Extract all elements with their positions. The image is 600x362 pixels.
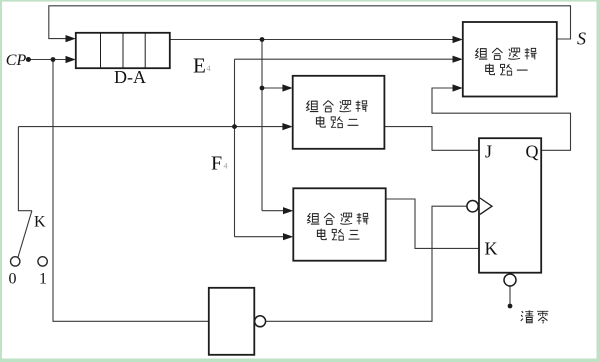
arrow into circuit-1 input 1: [453, 36, 463, 43]
svg-text:E: E: [193, 54, 206, 78]
svg-text:J: J: [485, 142, 492, 162]
NAND gate G1 output bubble: [255, 316, 266, 327]
register cell divider 2: [122, 33, 124, 68]
arrow into circuit-1 input 2: [453, 56, 463, 63]
arrow into circuit-1 input 3: [453, 84, 463, 91]
wire K-net vertical rail: [234, 59, 236, 237]
junction E4 to circuit-2: [260, 86, 265, 91]
label circuit-1 text line 2 电路一: [486, 64, 528, 75]
arrow into register CP input: [66, 56, 76, 63]
label circuit-2 text line 2 电路二: [316, 116, 358, 127]
wire switch lever: [18, 211, 32, 258]
wire circuit-2 output to J input: [384, 127, 479, 151]
register cell divider 3: [144, 33, 146, 68]
wire E4 branch to circuit-3: [262, 210, 284, 212]
svg-text:D-A: D-A: [114, 67, 146, 87]
wire circuit-3 output to K input: [386, 199, 479, 248]
register cell divider 1: [100, 33, 102, 68]
wire CP input to register: [28, 59, 67, 61]
JK flip-flop U1 box: [479, 138, 541, 273]
svg-text:4: 4: [207, 64, 211, 73]
svg-text:4: 4: [224, 161, 228, 170]
svg-text:S: S: [577, 29, 586, 49]
arrow into circuit-3 input 2: [283, 233, 293, 240]
node CP terminal dot: [26, 57, 31, 62]
svg-text:0: 0: [9, 271, 17, 288]
arrow into circuit-2 input 1: [282, 84, 292, 91]
wire K-net to circuit-1 input 2: [235, 58, 454, 60]
wire E4 bus register output to circuit-1 input: [170, 39, 454, 41]
label circuit-2 text line 1 组合逻辑: [306, 101, 367, 112]
combinational logic circuit-1 box: [463, 22, 557, 97]
wire Q output feedback to circuit-1 input 3: [432, 88, 571, 150]
svg-text:F: F: [211, 153, 222, 175]
junction E4 bus top: [260, 37, 265, 42]
label circuit-3 text line 1 组合逻辑: [307, 213, 368, 224]
flip-flop clock edge triangle: [480, 198, 492, 214]
switch contact 1: [38, 257, 47, 266]
svg-text:Q: Q: [526, 142, 539, 162]
combinational logic circuit-2 box: [293, 76, 385, 149]
label circuit-3 text line 2 电路三: [317, 229, 359, 240]
combinational logic circuit-3 box: [293, 188, 385, 260]
svg-text:CP: CP: [6, 52, 27, 69]
NAND gate G1 box: [209, 288, 255, 355]
node clear terminal dot: [508, 304, 513, 309]
wire clear bubble to clear node: [509, 286, 511, 304]
wire E4 vertical rail: [261, 40, 263, 211]
wire switch K to circuit-2 input 2: [18, 126, 283, 128]
wire CP rail down to NAND gate input: [53, 60, 209, 322]
wire NAND output to clock input: [266, 206, 467, 321]
switch contact 0: [11, 257, 20, 266]
svg-text:K: K: [34, 214, 46, 231]
junction CP rail: [51, 57, 56, 62]
wire switch pole: [18, 127, 32, 211]
label 清零 clear: [521, 310, 549, 323]
arrow into register top input: [66, 35, 76, 42]
wire top feedback from S corner along top to register input: [49, 6, 571, 39]
flip-flop clear bubble: [504, 274, 516, 286]
svg-text:1: 1: [39, 271, 47, 288]
arrow into circuit-3 input 1: [283, 207, 293, 214]
wire K-net branch to circuit-3: [235, 236, 285, 238]
register D-A box: [76, 33, 170, 68]
flip-flop clock bubble: [467, 201, 478, 212]
wire E4 branch to circuit-2: [262, 87, 284, 89]
label circuit-1 text line 1 组合逻辑: [475, 48, 536, 59]
svg-text:K: K: [485, 239, 498, 259]
arrow into circuit-2 input 2: [282, 123, 292, 130]
junction K-net crossing: [232, 124, 237, 129]
